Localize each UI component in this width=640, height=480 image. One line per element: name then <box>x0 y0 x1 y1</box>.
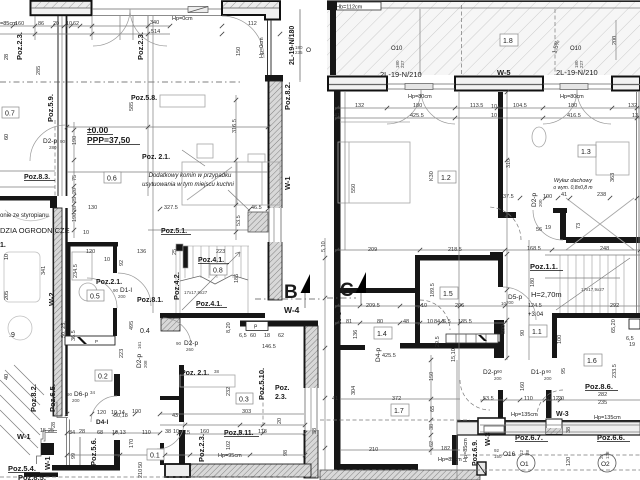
svg-text:86: 86 <box>38 21 44 27</box>
svg-text:200: 200 <box>72 398 80 403</box>
svg-text:10: 10 <box>4 254 10 260</box>
svg-text:53.5: 53.5 <box>483 396 494 402</box>
svg-text:D4-p: D4-p <box>375 348 382 362</box>
svg-text:D2-p: D2-p <box>483 369 497 376</box>
svg-text:D4-l: D4-l <box>96 419 108 426</box>
svg-text:104.5: 104.5 <box>513 103 527 109</box>
svg-text:73: 73 <box>576 223 582 229</box>
svg-text:136: 136 <box>137 249 146 255</box>
svg-text:Hp=80cm: Hp=80cm <box>408 94 432 100</box>
svg-text:1.8: 1.8 <box>503 38 513 45</box>
svg-text:P: P <box>95 339 98 344</box>
svg-text:Poz.8.2.: Poz.8.2. <box>283 82 292 110</box>
svg-text:60: 60 <box>250 333 256 339</box>
svg-text:208: 208 <box>143 360 148 368</box>
svg-text:90: 90 <box>520 330 526 336</box>
svg-text:53.5: 53.5 <box>236 215 242 226</box>
svg-text:25: 25 <box>48 428 54 434</box>
svg-text:19: 19 <box>629 342 635 348</box>
svg-text:17x17,9x27: 17x17,9x27 <box>581 287 605 292</box>
svg-text:10,13: 10,13 <box>112 430 126 436</box>
svg-text:B: B <box>284 282 298 303</box>
svg-text:Hp=0cm: Hp=0cm <box>172 16 193 22</box>
svg-text:132: 132 <box>355 103 364 109</box>
svg-text:50, 25,: 50, 25, <box>61 321 67 338</box>
svg-text:34: 34 <box>90 390 96 395</box>
svg-text:Poz.5.9.: Poz.5.9. <box>46 94 55 122</box>
svg-text:95: 95 <box>561 368 567 374</box>
svg-text:W-1: W-1 <box>283 176 292 190</box>
svg-text:0.1: 0.1 <box>150 453 160 460</box>
svg-text:W-3: W-3 <box>483 432 492 446</box>
svg-text:180: 180 <box>568 103 577 109</box>
svg-text:PPP=37,50: PPP=37,50 <box>87 135 131 145</box>
svg-text:W-3: W-3 <box>334 311 343 325</box>
svg-text:O10: O10 <box>391 46 403 52</box>
svg-text:Poz.4.1.: Poz.4.1. <box>196 301 222 308</box>
svg-text:235: 235 <box>598 400 607 406</box>
svg-text:416.5: 416.5 <box>567 113 581 119</box>
svg-text:D2-p: D2-p <box>43 138 57 145</box>
svg-text:113.5: 113.5 <box>470 103 483 109</box>
svg-text:W-1: W-1 <box>43 456 52 470</box>
svg-text:182: 182 <box>441 446 450 452</box>
svg-text:Poz.: Poz. <box>275 385 289 392</box>
svg-text:Poz.2.3.: Poz.2.3. <box>15 32 24 60</box>
svg-text:150: 150 <box>236 47 242 56</box>
svg-text:Hp=135cm: Hp=135cm <box>594 415 621 421</box>
svg-text:260: 260 <box>186 347 194 352</box>
svg-text:Hb=112cm: Hb=112cm <box>336 5 363 11</box>
svg-text:D2-p: D2-p <box>136 354 143 368</box>
svg-text:38: 38 <box>312 428 318 434</box>
svg-text:285: 285 <box>36 66 42 75</box>
svg-text:38: 38 <box>165 429 171 435</box>
svg-text:Poz.8.6.: Poz.8.6. <box>585 382 613 391</box>
svg-text:Poz.4.1.: Poz.4.1. <box>198 257 224 264</box>
svg-text:10: 10 <box>491 113 497 119</box>
svg-text:189.5: 189.5 <box>430 283 436 297</box>
svg-text:Hp=85cm: Hp=85cm <box>438 457 462 463</box>
svg-text:100: 100 <box>557 335 563 344</box>
svg-text:327.5: 327.5 <box>164 205 178 211</box>
svg-text:D2-p: D2-p <box>531 193 538 207</box>
svg-text:38: 38 <box>566 427 572 433</box>
svg-text:232: 232 <box>226 387 232 396</box>
svg-text:5,10: 5,10 <box>321 241 327 252</box>
svg-text:D6-p: D6-p <box>74 391 88 398</box>
svg-text:168.5: 168.5 <box>527 246 541 252</box>
svg-text:Poz.5.1.: Poz.5.1. <box>161 228 187 235</box>
svg-text:160: 160 <box>520 382 526 391</box>
svg-text:30,18: 30,18 <box>114 413 128 419</box>
svg-text:0.3: 0.3 <box>239 397 249 404</box>
svg-text:235: 235 <box>295 50 303 55</box>
svg-text:Poz.5.11.: Poz.5.11. <box>224 430 254 437</box>
svg-text:161: 161 <box>137 341 142 349</box>
svg-text:90: 90 <box>546 369 552 374</box>
svg-text:38: 38 <box>214 369 220 374</box>
svg-text:usytuowania w tym miejscu kuch: usytuowania w tym miejscu kuchni <box>142 182 234 188</box>
svg-text:304: 304 <box>351 386 357 395</box>
svg-text:Poz.8.2.: Poz.8.2. <box>29 384 38 412</box>
svg-text:29.5: 29.5 <box>435 336 441 347</box>
svg-text:62: 62 <box>429 441 435 447</box>
svg-text:190: 190 <box>72 136 78 145</box>
svg-text:500: 500 <box>501 325 507 334</box>
svg-text:160: 160 <box>15 21 24 27</box>
svg-text:585: 585 <box>129 102 135 111</box>
svg-text:.9: .9 <box>9 332 15 339</box>
svg-text:15,10: 15,10 <box>451 348 457 362</box>
svg-text:200: 200 <box>494 376 502 381</box>
svg-text:180: 180 <box>413 103 422 109</box>
svg-text:200: 200 <box>612 36 618 45</box>
svg-text:92: 92 <box>494 448 500 453</box>
svg-text:41: 41 <box>332 396 338 402</box>
svg-text:10,12: 10,12 <box>545 396 559 402</box>
svg-text:185: 185 <box>234 274 240 283</box>
svg-text:Hp=85cm: Hp=85cm <box>463 438 469 462</box>
svg-text:37.5: 37.5 <box>503 194 514 200</box>
svg-text:372: 372 <box>392 396 401 402</box>
svg-text:Poz.1.1.: Poz.1.1. <box>530 262 558 271</box>
svg-text:62: 62 <box>73 21 79 27</box>
svg-text:209.5: 209.5 <box>366 303 380 309</box>
svg-text:209: 209 <box>368 247 377 253</box>
svg-text:19: 19 <box>545 225 551 231</box>
svg-text:Poz.6.9.: Poz.6.9. <box>472 440 479 466</box>
svg-text:80: 80 <box>377 319 383 325</box>
svg-text:17x17,9x27: 17x17,9x27 <box>184 290 208 295</box>
svg-text:Poz. 2.1.: Poz. 2.1. <box>142 154 170 161</box>
svg-text:223: 223 <box>119 349 125 358</box>
svg-text:68: 68 <box>97 430 103 436</box>
svg-text:Hp=80cm: Hp=80cm <box>560 94 584 100</box>
svg-text:D1-l: D1-l <box>120 287 132 294</box>
svg-text:200: 200 <box>544 376 552 381</box>
svg-text:34: 34 <box>69 430 75 436</box>
svg-text:Hp=95cm: Hp=95cm <box>218 453 242 459</box>
svg-text:36.5: 36.5 <box>71 330 77 341</box>
svg-text:2L-19-N/210: 2L-19-N/210 <box>556 68 598 77</box>
svg-text:340: 340 <box>150 20 159 26</box>
svg-text:15: 15 <box>184 430 190 436</box>
svg-text:W-1: W-1 <box>17 432 31 441</box>
svg-text:Poz.8.3.: Poz.8.3. <box>24 174 50 181</box>
svg-text:92: 92 <box>119 260 125 266</box>
svg-text:227: 227 <box>579 60 584 68</box>
svg-text:Poz.5.6.: Poz.5.6. <box>89 438 98 466</box>
svg-text:1.6: 1.6 <box>587 358 597 365</box>
svg-text:110: 110 <box>142 430 151 436</box>
svg-text:25: 25 <box>172 249 178 255</box>
svg-text:28: 28 <box>79 429 85 435</box>
svg-text:Poz.6.5.: Poz.6.5. <box>48 384 57 412</box>
svg-text:98: 98 <box>283 450 289 456</box>
svg-text:41: 41 <box>561 192 567 198</box>
svg-text:81: 81 <box>346 319 352 325</box>
svg-text:25: 25 <box>72 197 78 203</box>
svg-text:124.5: 124.5 <box>528 303 542 309</box>
svg-text:DZIA OGRODNICZE: DZIA OGRODNICZE <box>0 226 70 235</box>
svg-text:190: 190 <box>72 213 78 222</box>
svg-text:2L-19-N/210: 2L-19-N/210 <box>380 70 422 79</box>
svg-text:130: 130 <box>88 205 97 211</box>
svg-text:W-4: W-4 <box>284 305 300 315</box>
svg-text:495: 495 <box>129 321 135 330</box>
svg-text:Poz.4.2.: Poz.4.2. <box>172 272 181 300</box>
svg-text:W-3: W-3 <box>556 411 569 418</box>
svg-text:90: 90 <box>60 139 66 144</box>
svg-text:150: 150 <box>429 372 435 381</box>
svg-text:99: 99 <box>71 453 77 459</box>
svg-text:234.5: 234.5 <box>73 264 79 278</box>
svg-text:223: 223 <box>216 249 225 255</box>
svg-text:46.5: 46.5 <box>251 205 262 211</box>
svg-text:O10: O10 <box>570 46 582 52</box>
svg-text:120: 120 <box>86 249 95 255</box>
svg-text:O2: O2 <box>601 461 610 468</box>
svg-text:1.4: 1.4 <box>377 331 387 338</box>
svg-text:38: 38 <box>429 424 435 430</box>
svg-text:238: 238 <box>597 192 606 198</box>
svg-text:65,20: 65,20 <box>611 319 617 333</box>
svg-text:6,5: 6,5 <box>239 333 247 339</box>
svg-text:425.5: 425.5 <box>382 353 396 359</box>
svg-text:Hp=135cm: Hp=135cm <box>511 412 538 418</box>
svg-text:50: 50 <box>138 462 144 468</box>
svg-text:75: 75 <box>72 175 78 181</box>
svg-text:1.1: 1.1 <box>532 329 542 336</box>
svg-text:56: 56 <box>536 227 542 233</box>
svg-text:20: 20 <box>53 21 59 27</box>
svg-text:102: 102 <box>226 441 232 450</box>
svg-text:H=2,70m: H=2,70m <box>531 290 562 299</box>
svg-text:2.3.: 2.3. <box>275 394 287 401</box>
svg-text:Wyłaz dachowy: Wyłaz dachowy <box>554 178 593 184</box>
svg-text:150: 150 <box>494 454 502 459</box>
svg-text:280: 280 <box>49 145 57 150</box>
svg-text:Poz.6.7.: Poz.6.7. <box>515 433 543 442</box>
svg-text:282: 282 <box>598 392 607 398</box>
svg-text:D2-p: D2-p <box>184 340 198 347</box>
svg-text:316.5: 316.5 <box>232 119 238 133</box>
svg-text:363: 363 <box>610 173 616 182</box>
svg-text:Poz.2.3.: Poz.2.3. <box>197 434 206 462</box>
svg-text:±0.00: ±0.00 <box>87 125 108 135</box>
svg-text:120: 120 <box>97 410 106 416</box>
svg-text:23: 23 <box>599 453 604 459</box>
svg-text:138: 138 <box>605 451 610 459</box>
svg-text:+3.04: +3.04 <box>528 312 544 318</box>
svg-text:Poz.5.8.: Poz.5.8. <box>131 95 157 102</box>
svg-text:Poz.2.3.: Poz.2.3. <box>136 32 145 60</box>
svg-text:0.6: 0.6 <box>107 176 117 183</box>
svg-text:0.5: 0.5 <box>90 294 100 301</box>
svg-text:10: 10 <box>104 257 110 263</box>
svg-text:132: 132 <box>628 103 637 109</box>
svg-text:341: 341 <box>41 266 47 275</box>
svg-text:90: 90 <box>497 369 503 374</box>
svg-text:10: 10 <box>83 230 89 236</box>
svg-text:18: 18 <box>264 333 270 339</box>
svg-text:90: 90 <box>67 392 73 397</box>
svg-text:90: 90 <box>176 341 182 346</box>
svg-text:170: 170 <box>129 439 135 448</box>
svg-text:200: 200 <box>538 199 543 207</box>
svg-text:20: 20 <box>72 188 78 194</box>
svg-text:o wym. 0,8x0,8 m: o wym. 0,8x0,8 m <box>553 185 592 191</box>
svg-text:15: 15 <box>40 428 46 434</box>
svg-text:60: 60 <box>4 134 10 140</box>
svg-text:Poz.5.10.: Poz.5.10. <box>257 368 266 400</box>
svg-text:Poz. 2.1.: Poz. 2.1. <box>181 370 209 377</box>
svg-text:227: 227 <box>400 60 405 68</box>
svg-text:136: 136 <box>353 330 359 339</box>
svg-text:40: 40 <box>4 374 10 380</box>
svg-text:233.5: 233.5 <box>612 364 618 378</box>
svg-text:110: 110 <box>524 396 533 402</box>
svg-text:8,20: 8,20 <box>226 322 232 333</box>
svg-text:43: 43 <box>172 413 178 419</box>
svg-text:292: 292 <box>610 303 619 309</box>
svg-text:303: 303 <box>242 409 251 415</box>
svg-text:0.2: 0.2 <box>98 374 108 381</box>
svg-text:Poz.8.5.: Poz.8.5. <box>18 473 46 480</box>
svg-text:1.2: 1.2 <box>441 175 451 182</box>
svg-text:O16: O16 <box>503 451 516 458</box>
svg-text:O1: O1 <box>520 461 529 468</box>
svg-text:10: 10 <box>427 319 433 325</box>
svg-text:0.8: 0.8 <box>213 268 223 275</box>
svg-text:Poz.2.1.: Poz.2.1. <box>96 279 122 286</box>
svg-text:0.7: 0.7 <box>5 111 15 118</box>
svg-text:210: 210 <box>138 469 144 478</box>
svg-text:28: 28 <box>4 54 10 60</box>
svg-text:90: 90 <box>113 288 119 293</box>
svg-text:6,5: 6,5 <box>443 319 451 325</box>
svg-text:425.5: 425.5 <box>410 113 424 119</box>
svg-text:20: 20 <box>277 418 283 424</box>
svg-text:1.7: 1.7 <box>394 408 404 415</box>
svg-text:1.3: 1.3 <box>581 149 591 156</box>
svg-text:62: 62 <box>278 333 284 339</box>
svg-text:onie ze styropianu: onie ze styropianu <box>0 213 49 219</box>
svg-text:1.5: 1.5 <box>443 291 453 298</box>
svg-text:210: 210 <box>369 447 378 453</box>
svg-text:248: 248 <box>600 246 609 252</box>
svg-text:Poz.6.6.: Poz.6.6. <box>597 433 625 442</box>
svg-text:146.5: 146.5 <box>262 344 276 350</box>
svg-text:W-2: W-2 <box>47 292 56 306</box>
svg-text:Poz.8.1.: Poz.8.1. <box>137 297 163 304</box>
svg-text:135.5: 135.5 <box>458 319 472 325</box>
svg-text:200: 200 <box>118 294 126 299</box>
svg-text:48: 48 <box>403 319 409 325</box>
svg-text:205: 205 <box>4 291 10 300</box>
svg-text:112: 112 <box>248 21 257 27</box>
svg-text:Hp=0cm: Hp=0cm <box>259 37 265 58</box>
svg-text:1.: 1. <box>0 242 6 249</box>
svg-text:K30: K30 <box>429 171 435 181</box>
svg-text:180: 180 <box>530 278 536 287</box>
svg-text:W-5: W-5 <box>497 68 511 77</box>
svg-text:550: 550 <box>351 184 357 193</box>
svg-text:514: 514 <box>151 29 160 35</box>
svg-text:Poz.5.4.: Poz.5.4. <box>8 464 36 473</box>
svg-text:120: 120 <box>566 457 572 466</box>
svg-text:218.5: 218.5 <box>448 247 462 253</box>
svg-text:D1-p: D1-p <box>531 369 545 376</box>
svg-text:0.4: 0.4 <box>140 328 150 335</box>
svg-text:O: O <box>306 47 311 54</box>
svg-text:Dodatkowy komin w przypadku: Dodatkowy komin w przypadku <box>149 173 232 179</box>
